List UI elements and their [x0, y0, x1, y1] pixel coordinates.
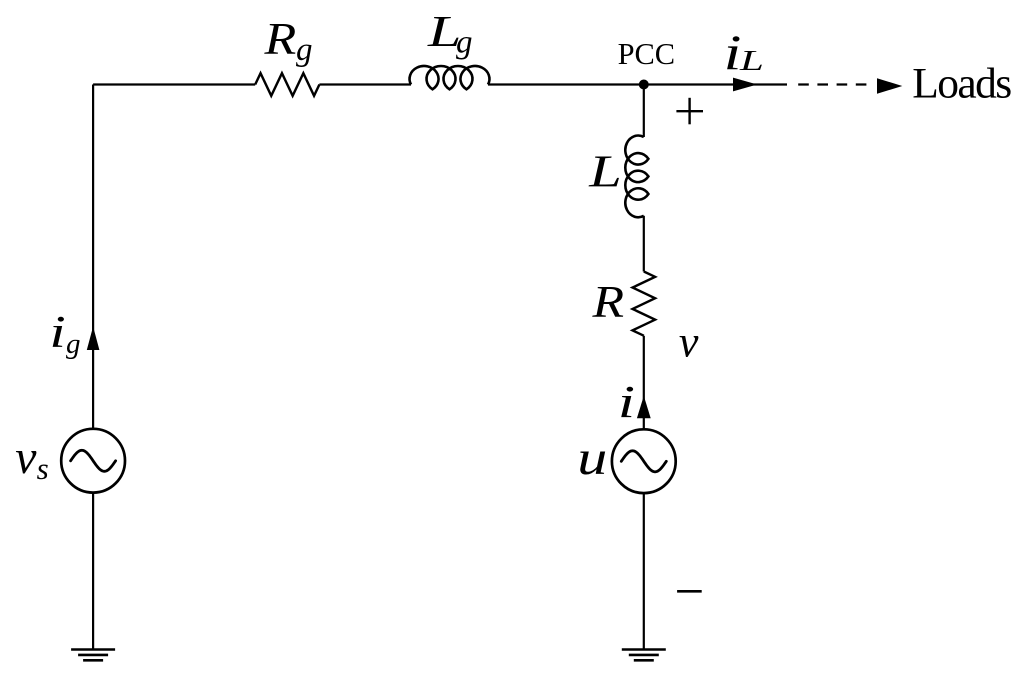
inductor Lg [410, 66, 490, 89]
polarity minus sign (v) [677, 590, 702, 593]
svg-text:Loads: Loads [912, 60, 1011, 108]
svg-text:L: L [739, 45, 764, 77]
AC voltage source vs [61, 429, 125, 493]
svg-text:g: g [66, 328, 81, 360]
wire R down to source u [643, 336, 645, 430]
svg-text:g: g [456, 24, 473, 60]
ground (right, below u) [622, 650, 666, 661]
wire from Lg through node PCC to arrow end [488, 83, 787, 85]
svg-text:R: R [263, 13, 296, 64]
wire top horizontal, left segment [93, 83, 255, 85]
svg-text:s: s [37, 451, 49, 486]
ground (left, below vs) [71, 650, 115, 661]
svg-text:L: L [588, 146, 622, 197]
inductor L [625, 136, 648, 218]
arrowhead current iL [733, 78, 757, 92]
resistor R [633, 272, 656, 336]
svg-text:v: v [15, 431, 37, 484]
arrowhead current i [637, 396, 651, 418]
wire PCC node down to inductor L [643, 85, 645, 138]
wire between Rg and Lg [319, 83, 411, 85]
svg-text:v: v [679, 317, 699, 366]
polarity plus sign (v) [676, 98, 703, 125]
wire below u to ground [643, 493, 645, 650]
svg-text:u: u [577, 430, 607, 485]
svg-text:i: i [724, 24, 742, 80]
svg-text:PCC: PCC [618, 37, 675, 71]
arrowhead to Loads [877, 78, 902, 94]
svg-text:i: i [49, 306, 65, 357]
node PCC (junction dot) [639, 80, 649, 90]
wire left vertical [92, 85, 94, 430]
svg-text:R: R [591, 276, 624, 327]
svg-text:i: i [618, 376, 635, 427]
wire below vs to ground [92, 492, 94, 649]
resistor Rg [255, 73, 319, 96]
dashed wire toward Loads [798, 83, 867, 85]
svg-text:g: g [296, 32, 313, 68]
AC voltage source u [612, 429, 676, 493]
wire between L and R [643, 216, 645, 272]
arrowhead current ig [87, 327, 100, 351]
